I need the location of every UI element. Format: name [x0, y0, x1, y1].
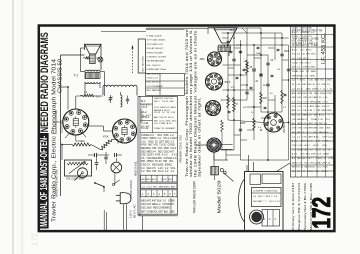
wire S6 to T2	[213, 152, 215, 166]
wire diag to motor	[224, 173, 234, 182]
svg-text:L-10: L-10	[296, 84, 301, 86]
resistor chart box	[141, 175, 178, 182]
motor main box	[252, 188, 282, 207]
wire top long	[146, 27, 208, 29]
svg-text:50L6: 50L6	[225, 80, 231, 84]
svg-text:5-35: 5-35	[297, 97, 302, 99]
parts table left border	[137, 96, 139, 215]
svg-text:A.V.C.: A.V.C.	[164, 109, 171, 112]
wire bus A	[227, 33, 229, 120]
svg-text:455KC: 455KC	[163, 187, 170, 189]
svg-text:CO-2: CO-2	[322, 101, 328, 103]
svg-text:BLK: BLK	[266, 196, 271, 198]
wire below table	[142, 216, 144, 231]
svg-text:L-10: L-10	[328, 88, 333, 90]
wire speaker right	[100, 44, 102, 70]
wire T1 to B+ rail	[100, 71, 105, 73]
svg-text:OH: OH	[96, 97, 100, 99]
svg-text:CO-2: CO-2	[158, 170, 164, 173]
motor run capacitor C5	[94, 153, 96, 157]
svg-text:BLK: BLK	[292, 123, 297, 125]
coupling capacitor C3	[95, 162, 99, 164]
svg-text:BLK: BLK	[311, 54, 316, 56]
pilot lamp PL	[98, 57, 103, 62]
motor leads	[103, 210, 105, 231]
phono output transformer T2	[211, 166, 219, 175]
svg-text:SEC: SEC	[324, 132, 329, 134]
oscillator coil L2	[121, 95, 123, 107]
svg-text:COND: COND	[325, 80, 332, 82]
svg-text:CO-2: CO-2	[328, 136, 334, 138]
svg-text:FM. BROADCAST: FM. BROADCAST	[147, 60, 166, 63]
svg-text:PRI: PRI	[152, 170, 156, 173]
svg-text:PRI: PRI	[309, 110, 313, 112]
svg-text:A.V.C.: A.V.C.	[319, 114, 326, 117]
wire rung 9	[283, 122, 289, 124]
svg-text:PRI: PRI	[322, 84, 326, 86]
svg-text:TU-32: TU-32	[292, 62, 299, 64]
svg-text:A.V.C.: A.V.C.	[302, 118, 309, 121]
svg-text:A.V.C.: A.V.C.	[146, 114, 152, 117]
resistor R14	[253, 118, 256, 130]
svg-text:T-1: T-1	[74, 74, 79, 78]
svg-text:IRC: IRC	[263, 85, 267, 87]
loop antenna L1	[103, 85, 137, 87]
svg-text:CO-2: CO-2	[159, 121, 165, 123]
resistor R8	[246, 60, 249, 74]
svg-text:470K: 470K	[325, 128, 331, 130]
capacitor C20	[227, 40, 230, 42]
svg-text:PRI: PRI	[309, 93, 313, 95]
chart row 2	[141, 183, 178, 189]
svg-text:470K: 470K	[301, 141, 307, 143]
filter capacitor C11	[259, 73, 263, 75]
svg-text:12SA7: 12SA7	[322, 153, 329, 156]
svg-text:60 CY. AC: 60 CY. AC	[132, 204, 136, 218]
wire rung 14	[226, 154, 241, 156]
wire rung 13	[221, 132, 223, 150]
svg-text:455KC: 455KC	[321, 171, 328, 173]
svg-text:MEG: MEG	[171, 107, 176, 109]
svg-text:Speaker data in chart at right: Speaker data in chart at right.	[198, 97, 202, 177]
voltage chart outer	[291, 26, 335, 177]
svg-text:MOD-O-VOL: MOD-O-VOL	[134, 160, 138, 176]
svg-text:1650: 1650	[169, 211, 175, 213]
AC plug	[120, 193, 131, 204]
svg-text:SEC: SEC	[292, 132, 297, 134]
parts table top border	[138, 95, 177, 97]
svg-text:GRN: GRN	[310, 75, 315, 77]
svg-text:SPEAKER CONN. 7015: SPEAKER CONN. 7015	[178, 135, 182, 163]
matrix right col	[170, 198, 172, 214]
wire speaker left	[84, 44, 86, 50]
svg-text:CO-2: CO-2	[147, 187, 153, 189]
small part circles	[220, 168, 223, 171]
svg-text:DUMMY ANT 200mf: DUMMY ANT 200mf	[147, 68, 167, 71]
digit cells row	[141, 190, 178, 197]
wire rung 6	[223, 89, 255, 91]
alignment table top border	[146, 29, 185, 31]
svg-text:COND: COND	[322, 141, 329, 143]
svg-text:470K: 470K	[103, 136, 109, 139]
header banner bar	[38, 133, 49, 229]
motor armature	[250, 210, 264, 224]
svg-text:5-35: 5-35	[298, 145, 303, 147]
wire rung 3	[222, 44, 289, 46]
svg-text:A.V.C.: A.V.C.	[313, 144, 320, 147]
wire rung 12	[261, 111, 282, 113]
wire AVC rail	[62, 144, 72, 146]
svg-text:CO-2: CO-2	[306, 132, 312, 134]
svg-text:PRI: PRI	[154, 121, 158, 123]
svg-text:PRI: PRI	[328, 93, 332, 95]
svg-text:12SA7: 12SA7	[154, 127, 161, 130]
svg-text:BLK: BLK	[164, 211, 169, 213]
voltage chart columns	[295, 26, 297, 177]
svg-text:A.V.C.: A.V.C.	[168, 116, 175, 119]
junction dots	[227, 44, 229, 46]
AC cord	[123, 204, 125, 231]
svg-text:NEEDED RADIO DIAGRAMS: NEEDED RADIO DIAGRAMS	[39, 32, 51, 132]
svg-text:TU-32: TU-32	[141, 121, 149, 125]
svg-text:PRI: PRI	[259, 191, 263, 193]
svg-text:L-10: L-10	[323, 97, 328, 99]
svg-text:470K: 470K	[312, 132, 318, 134]
svg-text:1650: 1650	[146, 208, 152, 210]
turntable rim arc	[239, 179, 245, 222]
page fold shadow	[12, 0, 14, 254]
svg-text:COND: COND	[168, 201, 175, 203]
svg-text:1650: 1650	[314, 93, 320, 95]
svg-text:455KC: 455KC	[292, 162, 299, 164]
svg-text:TU-32: TU-32	[162, 101, 169, 103]
svg-text:VOL: VOL	[309, 41, 314, 43]
phono pickup PU	[78, 168, 88, 178]
hum bucking resistor R4	[83, 94, 95, 97]
svg-text:A.V.C.: A.V.C.	[306, 48, 313, 51]
wire motor down	[114, 173, 116, 185]
hum resistor R12	[85, 57, 89, 59]
output transformer T1 core	[85, 72, 100, 78]
svg-text:172: 172	[31, 232, 40, 246]
resistor R15	[221, 120, 224, 132]
svg-text:BLK: BLK	[292, 158, 297, 160]
output transformer T1 secondary winding	[85, 82, 100, 84]
svg-text:12SA7: 12SA7	[311, 44, 318, 47]
IF tube V2 12SQ7 socket	[113, 119, 137, 143]
motor terminal box	[262, 210, 280, 227]
wire bus C	[240, 40, 242, 160]
padder capacitor C2	[126, 98, 129, 100]
svg-text:SEC: SEC	[170, 101, 175, 103]
svg-text:PRI: PRI	[141, 126, 145, 128]
svg-text:CO-2: CO-2	[297, 110, 303, 112]
wire bus B	[233, 28, 235, 150]
svg-text:470K: 470K	[292, 145, 298, 147]
speaker SP2 cone	[214, 28, 237, 43]
on-off switch SW2	[112, 183, 114, 185]
tube V1 pin wires	[56, 121, 63, 123]
svg-text:1650: 1650	[319, 128, 325, 130]
svg-text:520 - 1650 KC: 520 - 1650 KC	[147, 65, 162, 67]
wire diag 1	[242, 28, 247, 33]
svg-text:TU-32: TU-32	[161, 179, 168, 181]
svg-text:1650: 1650	[166, 121, 172, 123]
svg-text:A.V.C.: A.V.C.	[152, 178, 159, 181]
capacitor C15	[245, 91, 248, 93]
svg-text:MEG: MEG	[165, 208, 170, 210]
filter capacitor C10	[252, 68, 256, 70]
svg-text:PHONO MOTOR: PHONO MOTOR	[130, 180, 133, 199]
svg-text:PRI: PRI	[316, 110, 320, 112]
resistor R13	[260, 92, 263, 104]
svg-text:MANUAL OF 1948 MOST-OFTEN-: MANUAL OF 1948 MOST-OFTEN-	[39, 136, 50, 227]
wire bus H	[281, 33, 283, 112]
resistor R9	[227, 95, 230, 108]
svg-text:COND: COND	[328, 158, 335, 160]
alignment cell box	[146, 74, 185, 96]
svg-text:BLK: BLK	[305, 149, 310, 151]
antenna trimmer C1	[109, 97, 113, 99]
tube V4 50L6 socket	[206, 73, 223, 90]
wire rung 4	[223, 64, 241, 66]
svg-text:5-35: 5-35	[297, 58, 302, 60]
output transformer T1 primary winding	[85, 70, 100, 72]
svg-text:CONTROL. NOTES: CONTROL. NOTES	[147, 57, 167, 59]
svg-text:12SA7: 12SA7	[311, 118, 318, 121]
svg-text:A.V.C.: A.V.C.	[305, 144, 312, 147]
svg-text:10 MEG: 10 MEG	[76, 140, 85, 143]
svg-text:SA-2: SA-2	[141, 110, 147, 114]
svg-text:TU-32: TU-32	[297, 167, 304, 169]
svg-text:ANT: ANT	[169, 203, 174, 206]
svg-text:470K: 470K	[292, 128, 298, 130]
svg-text:CO-2: CO-2	[303, 101, 309, 103]
svg-text:5-35: 5-35	[315, 171, 320, 173]
svg-text:PUSH VOLUME: PUSH VOLUME	[147, 52, 163, 54]
svg-text:I.F. 455 KC.: I.F. 455 KC.	[321, 33, 327, 64]
svg-text:455KC: 455KC	[312, 88, 319, 90]
motor sub box 1	[250, 174, 261, 185]
svg-text:L-10: L-10	[307, 115, 312, 117]
svg-text:COND: COND	[271, 191, 278, 193]
svg-text:1650: 1650	[327, 110, 333, 112]
wire V1 to V2	[89, 125, 104, 127]
capacitor C18	[280, 53, 283, 55]
svg-text:PRI: PRI	[306, 32, 310, 34]
svg-text:CO-2: CO-2	[297, 101, 303, 103]
svg-text:M-1: M-1	[141, 99, 146, 103]
svg-text:TRAV-LER RADIO CORP.: TRAV-LER RADIO CORP.	[193, 180, 197, 213]
svg-text:RADIO-PHONO SW.: RADIO-PHONO SW.	[55, 169, 59, 197]
parts table bottom border	[138, 213, 177, 215]
wire rung 11	[241, 159, 289, 161]
svg-text:TU-32: TU-32	[292, 28, 299, 30]
svg-text:35Z5GT: 35Z5GT	[282, 122, 286, 133]
svg-text:PRI: PRI	[153, 187, 157, 189]
wire bus D	[246, 28, 248, 100]
svg-text:5-35: 5-35	[302, 36, 307, 38]
svg-text:L-10: L-10	[319, 119, 324, 121]
svg-text:L-10: L-10	[297, 106, 302, 108]
svg-text:12SA7: 12SA7	[315, 100, 322, 103]
capacitor C14	[287, 68, 290, 70]
svg-text:BLK: BLK	[292, 115, 297, 117]
svg-text:SEC: SEC	[172, 121, 177, 123]
speaker SP2 field coil	[218, 45, 230, 47]
svg-text:CO-2: CO-2	[269, 201, 275, 203]
svg-text:A.V.C.: A.V.C.	[303, 57, 310, 60]
svg-text:12SA7GT: 12SA7GT	[60, 120, 64, 133]
motor wires up	[248, 155, 250, 172]
svg-text:470K: 470K	[311, 154, 317, 156]
coil cell lines	[140, 103, 153, 105]
wire rung 2	[208, 27, 261, 29]
wire rung 5	[247, 54, 268, 56]
svg-text:CO-2: CO-2	[303, 106, 309, 108]
wire V1 top	[75, 96, 77, 109]
svg-text:5-35: 5-35	[299, 71, 304, 73]
svg-text:ANT. SECTION: ANT. SECTION	[141, 56, 144, 71]
svg-text:5-35: 5-35	[302, 123, 307, 125]
wire rung 15	[247, 106, 261, 108]
svg-text:5-35: 5-35	[171, 112, 176, 114]
wire S6 left	[196, 144, 207, 146]
svg-text:PRI: PRI	[306, 54, 310, 56]
phono motor unit box	[245, 172, 284, 232]
rectifier V7 35Z5 socket	[264, 113, 283, 132]
wire bus E	[253, 45, 255, 140]
svg-text:A.V.C.: A.V.C.	[292, 48, 299, 51]
svg-text:BLK: BLK	[159, 110, 164, 112]
wire loop to V1	[61, 86, 69, 88]
wire S6 vert right	[225, 149, 227, 160]
svg-text:1650: 1650	[322, 145, 328, 147]
svg-text:1650: 1650	[306, 88, 312, 90]
svg-text:COND: COND	[309, 67, 316, 69]
capacitor C6	[114, 153, 116, 157]
svg-text:1/2 TURNS OUT: 1/2 TURNS OUT	[147, 44, 164, 46]
svg-text:Mod-O-Vol Wh & Blue #485: Mod-O-Vol Wh & Blue #485	[309, 182, 313, 230]
svg-text:BLK: BLK	[157, 201, 162, 203]
svg-text:A.V.C.: A.V.C.	[292, 140, 299, 143]
svg-text:Secondary Red & Brn #784A: Secondary Red & Brn #784A	[303, 183, 307, 230]
wire SP2 leads	[219, 52, 221, 56]
svg-text:SA-2 5-35 mm: SA-2 5-35 mm	[147, 72, 161, 75]
wire S6 down	[213, 152, 215, 160]
resistor R10	[281, 90, 284, 104]
svg-text:SEC: SEC	[314, 128, 319, 130]
svg-text:MEG: MEG	[311, 71, 316, 73]
capacitor C16	[232, 58, 235, 60]
svg-text:150K: 150K	[284, 51, 290, 53]
svg-text:A.V.C.: A.V.C.	[292, 31, 299, 34]
svg-text:L-10: L-10	[275, 201, 280, 203]
wire top 2	[101, 31, 146, 33]
speaker SP1 cone	[85, 44, 102, 54]
svg-text:Model 5029: Model 5029	[217, 180, 222, 214]
wire S6 right 2	[218, 148, 233, 150]
svg-text:P. DIAL SCALE: P. DIAL SCALE	[147, 35, 162, 38]
svg-text:S.W. AT 1650 KC: S.W. AT 1650 KC	[147, 47, 164, 50]
motor sub box 2	[262, 174, 281, 184]
svg-text:1650: 1650	[302, 93, 308, 95]
svg-text:BLK: BLK	[305, 162, 310, 164]
svg-text:COND: COND	[306, 28, 313, 30]
svg-text:1650: 1650	[315, 106, 321, 108]
wire rung 7	[221, 99, 248, 101]
svg-text:TO P. DIAL 1650KC: TO P. DIAL 1650KC	[147, 39, 167, 42]
wire T2 down	[214, 175, 216, 180]
resistor R7	[233, 97, 236, 112]
svg-text:TU-32: TU-32	[292, 36, 299, 38]
svg-text:SEC: SEC	[168, 179, 173, 181]
svg-text:CO-2: CO-2	[325, 119, 331, 121]
tuning gang dashed link	[132, 46, 134, 74]
voltage chart rows	[291, 34, 335, 36]
svg-text:A.V.C.: A.V.C.	[146, 104, 152, 107]
wire rung 16	[228, 74, 247, 76]
svg-text:TU-32: TU-32	[315, 149, 322, 151]
svg-text:PRI: PRI	[297, 132, 301, 134]
wire T1 secondary leads	[84, 82, 86, 95]
parts table right border	[176, 96, 178, 215]
capacitor C4	[104, 156, 107, 158]
wire rung 1	[222, 32, 283, 34]
svg-text:L-10: L-10	[322, 158, 327, 160]
svg-text:Burgess Blk & Yel #2234: Burgess Blk & Yel #2234	[297, 182, 301, 230]
svg-text:455KC: 455KC	[320, 93, 327, 95]
capacitor C13	[266, 83, 269, 85]
wire rung 17	[261, 37, 289, 39]
wire bus F	[260, 28, 262, 112]
svg-text:OSC 455 KC: OSC 455 KC	[147, 82, 160, 84]
svg-text:CO-2: CO-2	[316, 167, 322, 169]
tube V5 socket	[206, 101, 221, 116]
wire T1 left lead	[81, 71, 86, 73]
extra amp details	[222, 37, 228, 39]
capacitor C12	[239, 50, 242, 52]
R2	[101, 140, 112, 150]
svg-text:5-35: 5-35	[302, 136, 307, 138]
svg-text:AC: AC	[266, 128, 269, 131]
svg-text:BLK: BLK	[301, 154, 306, 156]
svg-text:A.V.C.: A.V.C.	[292, 153, 299, 156]
converter tube V1 12SA7 socket	[63, 109, 89, 135]
svg-text:455KC: 455KC	[307, 171, 314, 173]
svg-text:A.V.C.: A.V.C.	[307, 140, 314, 143]
wire bus I	[288, 45, 290, 160]
svg-text:BLK: BLK	[147, 170, 152, 173]
svg-text:12SA7: 12SA7	[315, 161, 322, 164]
wire motor up left	[246, 165, 248, 172]
svg-text:SEC: SEC	[306, 154, 311, 156]
svg-text:BLK: BLK	[146, 126, 150, 128]
svg-text:CO-2: CO-2	[154, 107, 160, 109]
svg-text:ABA: ABA	[200, 57, 205, 61]
tube V6 socket dark	[207, 138, 221, 152]
AVC resistor R1	[72, 143, 91, 146]
border frame	[39, 26, 335, 232]
svg-text:ANT: ANT	[171, 186, 176, 189]
antenna section cell	[138, 39, 145, 73]
svg-text:455KC: 455KC	[297, 75, 304, 77]
wire diag 2	[276, 112, 282, 118]
svg-text:PRI: PRI	[303, 97, 307, 99]
svg-text:CO-2 TRIMMER: CO-2 TRIMMER	[147, 86, 163, 88]
svg-text:470K: 470K	[310, 167, 316, 169]
svg-text:12SA7: 12SA7	[292, 70, 299, 73]
